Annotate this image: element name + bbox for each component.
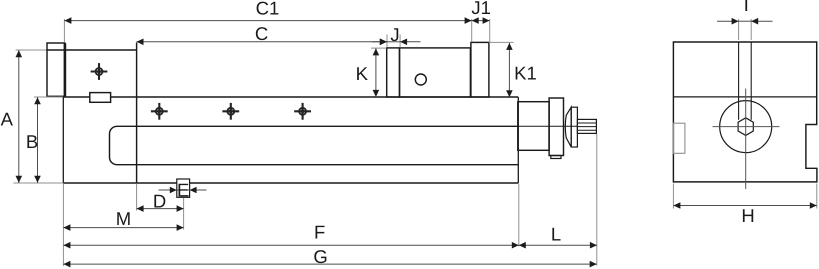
top slot right edge (750, 42, 752, 120)
end view mid line (673, 96, 816, 98)
svg-text:A: A (1, 108, 14, 129)
fixed jaw plate (47, 43, 65, 96)
svg-text:K1: K1 (514, 63, 537, 84)
svg-text:H: H (741, 205, 754, 226)
dimension G (63, 261, 596, 268)
svg-text:C: C (255, 23, 268, 44)
dimension K1 (506, 43, 513, 97)
dimension E (159, 187, 207, 194)
fixed jaw clamping face (thick) (64, 43, 67, 96)
ext I right (750, 19, 752, 40)
dimension H (673, 202, 816, 209)
handle disc (571, 107, 577, 147)
svg-text:G: G (313, 246, 327, 267)
dimension B (34, 97, 41, 183)
guide slot (rounded left end) (110, 126, 519, 164)
rear jaw plate (K1) (471, 42, 489, 97)
extension line for A top (16, 49, 47, 51)
stop key tab (E) (177, 179, 190, 197)
end view outline (673, 42, 817, 182)
svg-text:C1: C1 (256, 0, 280, 19)
dimension M (63, 224, 183, 231)
dimension C (137, 39, 387, 46)
dimension K (373, 48, 380, 97)
ext I left (738, 19, 740, 40)
movable jaw body (400, 48, 471, 97)
screw hole 2 on slide (222, 103, 239, 120)
svg-text:E: E (177, 180, 189, 201)
ext C1/J1 (471, 19, 473, 42)
movable jaw hole (415, 74, 426, 85)
slide body bottom line (63, 182, 518, 184)
screw hole on fixed block (91, 63, 108, 80)
fixed jaw block (47, 49, 137, 51)
ext H right (816, 184, 818, 209)
dimension F (63, 242, 518, 249)
screw boss circle (720, 101, 772, 153)
ext J1 right (489, 19, 491, 42)
screw center line (518, 125, 578, 127)
ext F/L (518, 184, 520, 247)
svg-text:F: F (314, 222, 325, 243)
ext M/F/G left (62, 184, 64, 266)
spline line 2 (577, 126, 596, 128)
svg-text:J1: J1 (471, 0, 491, 18)
dimension J1 (472, 17, 490, 24)
flange lower tab (551, 156, 561, 159)
spline line 3 (577, 129, 596, 131)
screw hole 1 on slide (151, 103, 168, 120)
ext D left below body (136, 183, 138, 210)
svg-text:I: I (744, 0, 749, 16)
movable jaw plate (387, 48, 400, 97)
dimension D (137, 205, 184, 212)
svg-text:D: D (153, 191, 166, 212)
screw hole 3 on slide (294, 103, 311, 120)
ext C1 left (63, 19, 65, 42)
svg-text:J: J (390, 24, 399, 45)
ext C/J at jaw plate left (386, 35, 388, 48)
vertical center line (745, 89, 747, 190)
top slot left edge (738, 42, 740, 120)
hex socket (738, 118, 753, 136)
ext K1 top (489, 41, 514, 43)
bearing housing cylinder (518, 102, 549, 151)
svg-text:M: M (116, 208, 131, 229)
horizontal center line (713, 126, 780, 128)
spline line 1 (577, 122, 596, 124)
svg-text:B: B (26, 131, 38, 152)
extension line for A/B bottom (13, 182, 63, 184)
bearing flange (549, 98, 563, 156)
dimension I (717, 18, 773, 25)
taper washer (565, 107, 571, 147)
slide body right edge (517, 97, 519, 183)
dimension C1 (64, 17, 471, 24)
ext H left (672, 184, 674, 209)
slide body left edge (62, 97, 64, 183)
ext D/M right (183, 198, 185, 230)
dimension A (16, 50, 23, 183)
slide body top line with B extension (34, 96, 63, 98)
ext K top (371, 47, 387, 49)
splined shaft end (577, 119, 596, 133)
ext J right (399, 35, 401, 48)
gib key block (90, 93, 111, 103)
ext L/G right (596, 134, 598, 266)
dimension L (519, 242, 597, 249)
left side groove (673, 123, 685, 153)
svg-text:L: L (551, 224, 561, 245)
dimension J (372, 39, 421, 46)
svg-text:K: K (356, 63, 369, 84)
